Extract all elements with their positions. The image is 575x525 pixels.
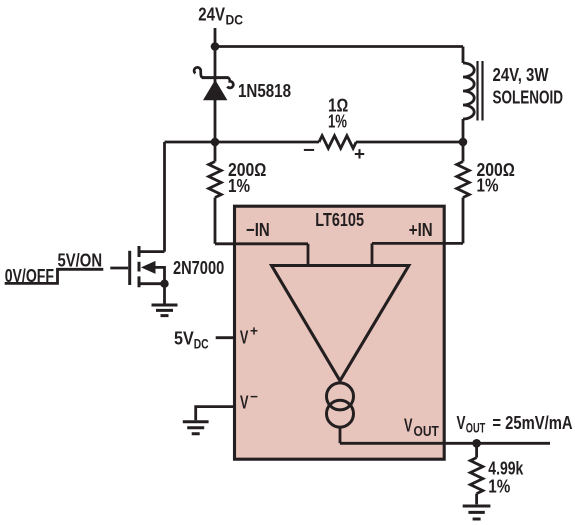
svg-text:= 25mV/mA: = 25mV/mA bbox=[492, 412, 572, 433]
svg-text:V: V bbox=[240, 392, 249, 413]
svg-text:5V: 5V bbox=[174, 327, 194, 348]
svg-text:LT6105: LT6105 bbox=[315, 209, 364, 230]
svg-text:24V: 24V bbox=[198, 4, 225, 25]
svg-text:+: + bbox=[250, 324, 258, 339]
svg-text:DC: DC bbox=[226, 13, 244, 28]
svg-text:V: V bbox=[240, 326, 249, 347]
svg-text:−IN: −IN bbox=[246, 219, 270, 240]
svg-text:1%: 1% bbox=[488, 476, 510, 497]
svg-text:1N5818: 1N5818 bbox=[238, 80, 291, 101]
svg-text:+IN: +IN bbox=[409, 219, 433, 240]
svg-text:OUT: OUT bbox=[466, 421, 486, 436]
svg-text:SOLENOID: SOLENOID bbox=[493, 87, 564, 108]
svg-text:−: − bbox=[250, 389, 258, 404]
svg-text:OUT: OUT bbox=[414, 424, 439, 440]
svg-text:V: V bbox=[404, 415, 413, 436]
svg-text:−: − bbox=[303, 139, 315, 160]
svg-text:24V, 3W: 24V, 3W bbox=[493, 64, 549, 85]
svg-text:1%: 1% bbox=[477, 175, 499, 196]
svg-text:1%: 1% bbox=[228, 175, 250, 196]
svg-text:1%: 1% bbox=[328, 111, 347, 132]
svg-text:V: V bbox=[457, 412, 466, 433]
svg-text:DC: DC bbox=[194, 336, 209, 351]
svg-text:2N7000: 2N7000 bbox=[173, 257, 224, 278]
svg-text:0V/OFF: 0V/OFF bbox=[5, 265, 54, 286]
svg-text:5V/ON: 5V/ON bbox=[58, 249, 103, 270]
svg-text:+: + bbox=[354, 143, 365, 164]
